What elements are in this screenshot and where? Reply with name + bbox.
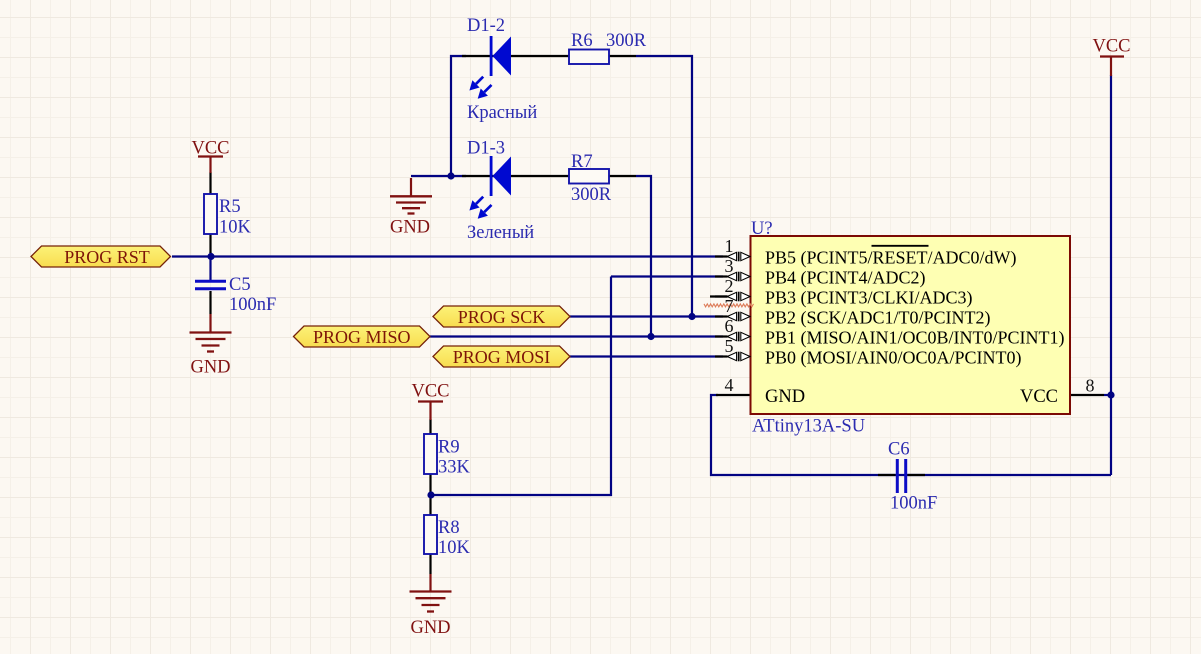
svg-text:GND: GND [410, 618, 450, 638]
svg-text:GND: GND [190, 358, 230, 378]
svg-text:5: 5 [725, 336, 734, 356]
svg-text:D1-2: D1-2 [467, 16, 505, 36]
svg-text:PROG SCK: PROG SCK [458, 307, 546, 327]
svg-text:VCC: VCC [1092, 37, 1130, 57]
svg-text:PROG MISO: PROG MISO [313, 327, 411, 347]
svg-text:Зеленый: Зеленый [467, 223, 534, 243]
svg-text:Красный: Красный [467, 103, 537, 123]
svg-text:PB1 (MISO/AIN1/OC0B/INT0/PCINT: PB1 (MISO/AIN1/OC0B/INT0/PCINT1) [765, 327, 1065, 348]
svg-text:U?: U? [751, 219, 773, 239]
svg-text:300R: 300R [606, 31, 647, 51]
svg-text:R9: R9 [438, 438, 460, 458]
svg-text:R6: R6 [571, 31, 593, 51]
svg-text:8: 8 [1086, 376, 1095, 396]
svg-text:VCC: VCC [1020, 387, 1058, 407]
svg-text:7: 7 [725, 296, 734, 316]
svg-text:R7: R7 [571, 152, 593, 172]
svg-text:2: 2 [725, 276, 734, 296]
svg-text:R8: R8 [438, 518, 460, 538]
svg-text:GND: GND [765, 387, 805, 407]
svg-text:R5: R5 [219, 197, 241, 217]
svg-text:C6: C6 [888, 440, 910, 460]
svg-text:33K: 33K [438, 458, 471, 478]
svg-text:PB4 (PCINT4/ADC2): PB4 (PCINT4/ADC2) [765, 267, 926, 288]
svg-text:4: 4 [725, 375, 734, 395]
svg-text:3: 3 [725, 256, 734, 276]
svg-text:6: 6 [725, 316, 734, 336]
svg-text:10K: 10K [219, 218, 252, 238]
svg-text:PROG MOSI: PROG MOSI [453, 347, 551, 367]
svg-text:100nF: 100nF [229, 295, 276, 315]
svg-text:PB3 (PCINT3/CLKI/ADC3): PB3 (PCINT3/CLKI/ADC3) [765, 287, 973, 308]
svg-text:100nF: 100nF [890, 494, 937, 514]
svg-text:PROG RST: PROG RST [64, 247, 150, 267]
svg-text:VCC: VCC [411, 382, 449, 402]
svg-text:D1-3: D1-3 [467, 139, 505, 159]
svg-text:PB5 (PCINT5/RESET/ADC0/dW): PB5 (PCINT5/RESET/ADC0/dW) [765, 247, 1017, 268]
svg-text:C5: C5 [229, 275, 251, 295]
svg-text:1: 1 [725, 236, 734, 256]
svg-text:GND: GND [390, 218, 430, 238]
svg-text:300R: 300R [571, 185, 612, 205]
svg-text:ATtiny13A-SU: ATtiny13A-SU [752, 417, 865, 437]
svg-text:PB2 (SCK/ADC1/T0/PCINT2): PB2 (SCK/ADC1/T0/PCINT2) [765, 307, 991, 328]
svg-text:VCC: VCC [191, 139, 229, 159]
svg-text:PB0 (MOSI/AIN0/OC0A/PCINT0): PB0 (MOSI/AIN0/OC0A/PCINT0) [765, 347, 1022, 368]
svg-text:10K: 10K [438, 538, 471, 558]
